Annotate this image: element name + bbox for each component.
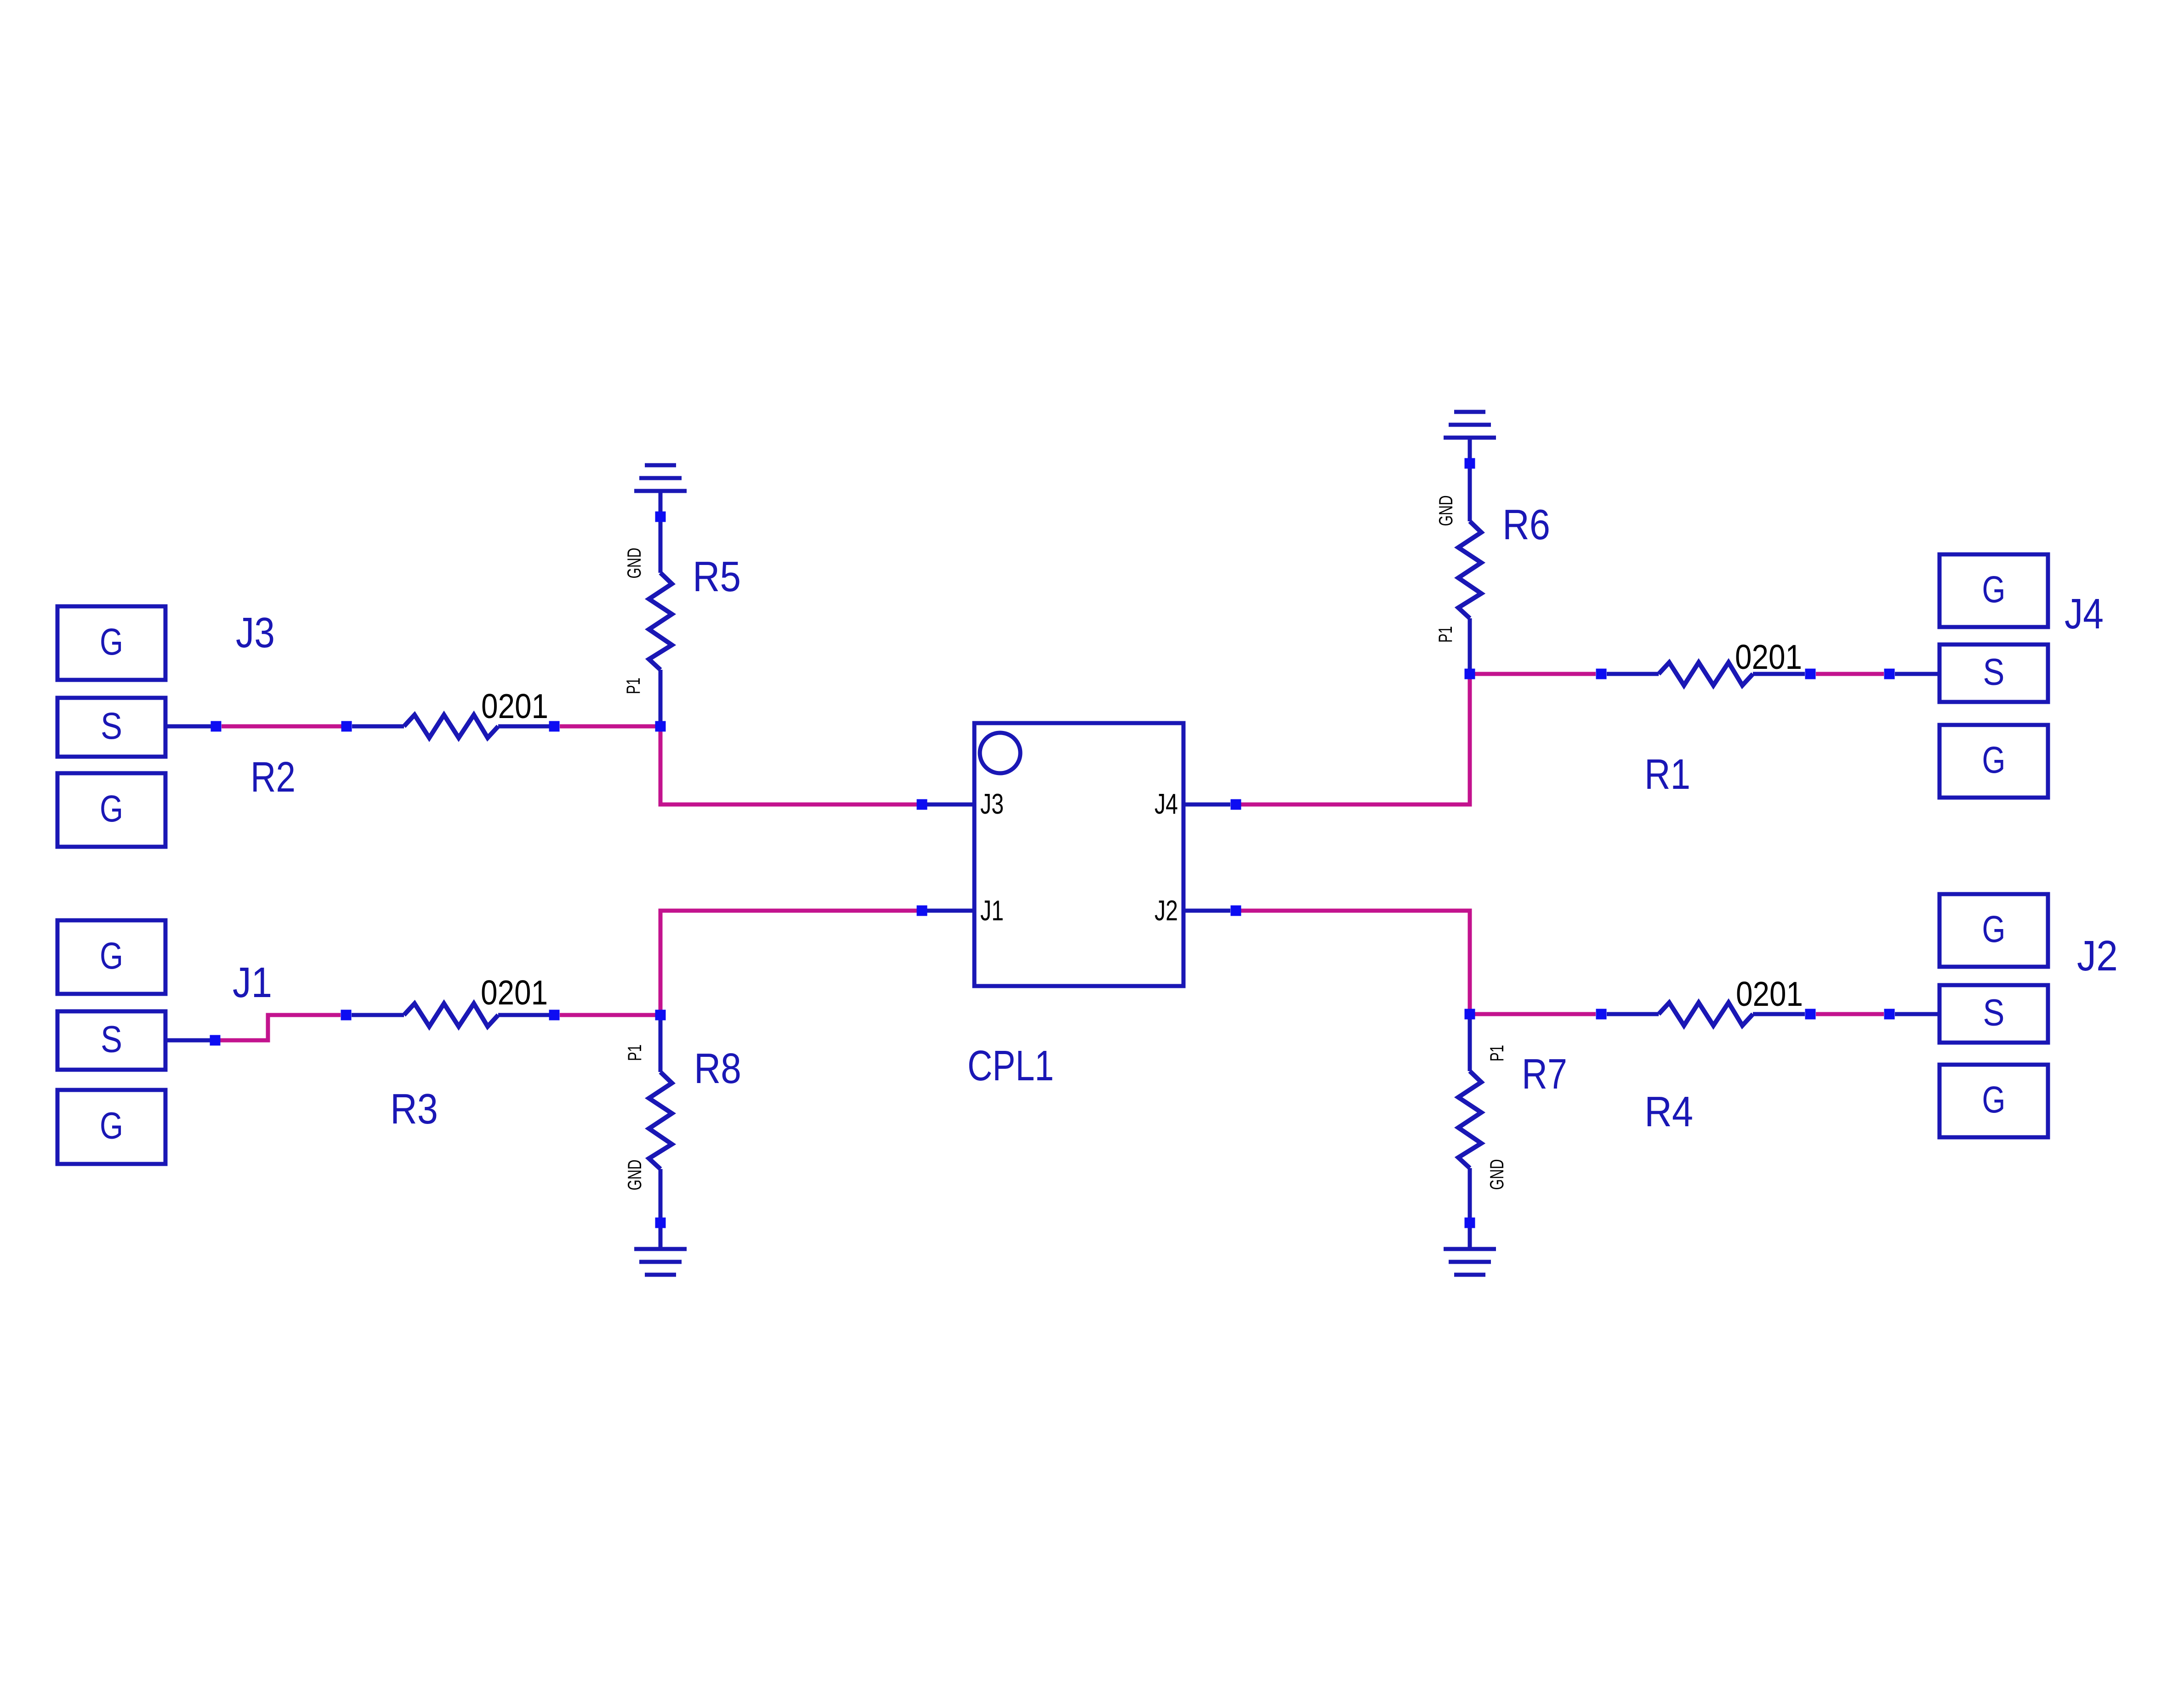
svg-text:R4: R4 — [1644, 1088, 1693, 1135]
junction node R5/R2 — [655, 721, 666, 732]
wire R1 to node — [1753, 672, 1805, 676]
resistor R1 — [1659, 662, 1753, 685]
resistor R2 — [404, 715, 498, 738]
connector J1 pad S — [57, 1011, 165, 1070]
node R4 pin2 — [1805, 1009, 1816, 1020]
node R2 pin2 — [549, 721, 560, 732]
connector J2 pad G (top) — [1939, 894, 2048, 967]
svg-text:J4: J4 — [1155, 788, 1178, 820]
node J1 net — [210, 1035, 221, 1046]
wire junction to R4 (magenta) — [1475, 1012, 1596, 1016]
connector J3 pad G (bottom) — [57, 773, 165, 847]
wire R6 to junction — [1468, 618, 1472, 674]
svg-text:S: S — [101, 1019, 122, 1061]
connector J2 pad S — [1939, 985, 2048, 1043]
node R8 GND pin — [655, 1218, 666, 1228]
node J3 net — [211, 721, 222, 732]
resistor R5 — [649, 573, 672, 670]
node CPL1 J1 pin — [917, 906, 927, 916]
junction node R8/R3 — [655, 1010, 666, 1021]
node R2 pin1 — [341, 721, 352, 732]
node R3 pin2 — [549, 1010, 560, 1021]
node R4 pin1 — [1596, 1009, 1607, 1020]
wire node to R6 — [1468, 463, 1472, 521]
connector J4 pad S — [1939, 644, 2048, 702]
svg-text:P1: P1 — [1434, 626, 1456, 643]
wire R2 to R5 junction (magenta) — [560, 724, 660, 729]
node R3 pin1 — [341, 1010, 352, 1021]
node CPL1 J3 pin — [917, 799, 927, 810]
svg-text:R2: R2 — [250, 753, 296, 801]
wire node to R3 — [352, 1013, 404, 1017]
svg-text:J2: J2 — [1155, 895, 1178, 927]
svg-text:P1: P1 — [624, 1044, 645, 1061]
resistor R8 — [649, 1072, 672, 1169]
svg-text:0201: 0201 — [1736, 975, 1803, 1013]
ground symbol below R8 — [634, 1247, 687, 1251]
node J2 net — [1884, 1009, 1895, 1020]
svg-text:GND: GND — [1435, 496, 1456, 526]
wire junction to R1 (magenta) — [1475, 672, 1596, 676]
svg-text:G: G — [100, 935, 123, 977]
wire node to ground (R7) — [1468, 1223, 1472, 1249]
wire R4 to J2 (magenta) — [1816, 1012, 1884, 1016]
wire R5 to junction — [659, 670, 663, 726]
svg-text:S: S — [1983, 651, 2005, 693]
node R6 GND pin — [1465, 458, 1475, 469]
svg-text:J2: J2 — [2077, 932, 2118, 980]
ground symbol above R5 — [645, 463, 676, 468]
svg-text:R5: R5 — [693, 553, 741, 600]
svg-text:R6: R6 — [1502, 501, 1550, 548]
wire junction up to CPL1 J1 (magenta) — [660, 911, 917, 1010]
svg-text:R7: R7 — [1522, 1050, 1567, 1098]
svg-text:G: G — [100, 788, 123, 830]
wire CPL1 J4 to R6 junction (magenta) — [1241, 679, 1470, 804]
coupler CPL1 body — [974, 723, 1183, 986]
svg-text:0201: 0201 — [1735, 638, 1802, 676]
wire node to R5 — [659, 517, 663, 573]
ground symbol below R7 — [1444, 1247, 1496, 1251]
wire junction to R8 — [659, 1015, 663, 1072]
node R5 GND pin — [655, 512, 666, 522]
svg-text:GND: GND — [624, 1160, 645, 1191]
resistor R6 — [1458, 521, 1481, 618]
wire R2 to node — [498, 724, 549, 729]
connector J4 pad G (top) — [1939, 554, 2048, 627]
svg-text:P1: P1 — [1486, 1045, 1507, 1061]
svg-text:R3: R3 — [390, 1085, 438, 1133]
wire J1.S to node — [165, 1038, 210, 1043]
svg-text:G: G — [1982, 908, 2006, 950]
wire node to J4.S — [1895, 672, 1939, 676]
ground symbol above R6 — [1454, 410, 1485, 414]
connector J3 pad G (top) — [57, 606, 165, 680]
wire junction to R7 — [1468, 1014, 1472, 1071]
svg-text:J1: J1 — [980, 895, 1004, 927]
svg-text:J1: J1 — [233, 958, 272, 1006]
node CPL1 J2 pin — [1231, 906, 1241, 916]
svg-text:GND: GND — [1486, 1159, 1507, 1190]
wire R4 to node — [1753, 1012, 1805, 1016]
svg-text:0201: 0201 — [481, 973, 548, 1012]
wire node to R2 — [352, 724, 404, 729]
svg-text:J3: J3 — [980, 788, 1004, 820]
connector J1 pad G (top) — [57, 920, 165, 994]
CPL1 pin-1 circle — [980, 733, 1020, 773]
svg-text:G: G — [1982, 1079, 2006, 1121]
svg-text:S: S — [101, 705, 122, 747]
wire node to ground (R8) — [659, 1223, 663, 1249]
svg-text:S: S — [1983, 992, 2005, 1034]
node R1 pin1 — [1596, 669, 1607, 679]
resistor R4 — [1659, 1003, 1753, 1026]
connector J1 pad G (bottom) — [57, 1090, 165, 1164]
junction node R6/R1 — [1465, 669, 1475, 679]
wire R7 to node — [1468, 1168, 1472, 1223]
svg-text:0201: 0201 — [481, 687, 548, 725]
connector J2 pad G (bottom) — [1939, 1065, 2048, 1137]
svg-text:G: G — [100, 621, 123, 663]
svg-text:J4: J4 — [2065, 590, 2104, 638]
svg-text:CPL1: CPL1 — [967, 1042, 1054, 1089]
wire CPL1 J4 pin to node — [1183, 803, 1230, 807]
wire ground to node (R6) — [1468, 438, 1472, 463]
node R1 pin2 — [1805, 669, 1816, 679]
svg-text:P1: P1 — [622, 678, 644, 694]
wire CPL1 J2 pin to node — [1183, 909, 1230, 913]
svg-text:R1: R1 — [1644, 750, 1690, 798]
wire J3.S to node — [165, 724, 211, 729]
wire R3 to node — [498, 1013, 549, 1017]
node R7 GND pin — [1465, 1218, 1475, 1228]
wire net J1 jog (magenta) — [220, 1015, 341, 1040]
wire R3 to R8 junction (magenta) — [560, 1013, 660, 1017]
svg-text:GND: GND — [623, 548, 645, 579]
wire node to CPL1 J1 pin — [927, 909, 974, 913]
wire ground to node (R5) — [659, 491, 663, 517]
wire net J3 (magenta) — [222, 724, 341, 729]
svg-text:R8: R8 — [694, 1044, 741, 1092]
node CPL1 J4 pin — [1231, 799, 1241, 810]
wire junction down to CPL1 J3 (magenta) — [660, 731, 917, 804]
wire node to R4 — [1607, 1012, 1659, 1016]
wire node to CPL1 J3 pin — [927, 803, 974, 807]
svg-text:G: G — [1982, 569, 2006, 610]
wire node to R1 — [1607, 672, 1659, 676]
wire node to J2.S — [1895, 1012, 1939, 1016]
junction node R7/R4 — [1465, 1009, 1475, 1020]
svg-text:G: G — [1982, 739, 2006, 781]
wire R8 to node — [659, 1169, 663, 1223]
resistor R7 — [1458, 1071, 1481, 1168]
node J4 net — [1884, 669, 1895, 679]
resistor R3 — [404, 1004, 498, 1026]
wire CPL1 J2 to R7 junction (magenta) — [1241, 911, 1470, 1009]
connector J3 pad S — [57, 698, 165, 757]
connector J4 pad G (bottom) — [1939, 725, 2048, 798]
wire R1 to J4 (magenta) — [1816, 672, 1884, 676]
svg-text:J3: J3 — [236, 609, 275, 656]
svg-text:G: G — [100, 1105, 123, 1147]
